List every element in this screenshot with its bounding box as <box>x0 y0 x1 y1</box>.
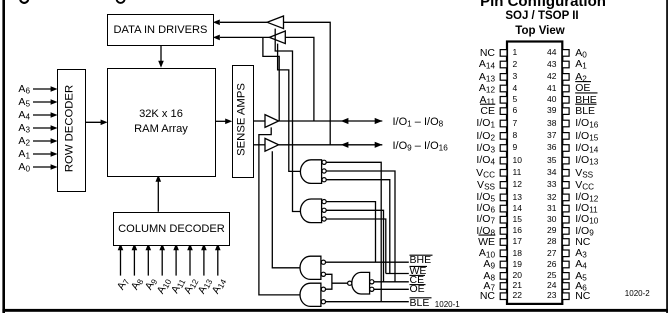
pin 14 label I/O6 <box>440 202 495 215</box>
gate G4 input bubble b <box>321 300 325 304</box>
pin 29 label I/O9 <box>575 225 594 238</box>
gate G2 input bubble c <box>322 217 326 221</box>
wire address A9 input <box>147 250 149 276</box>
pin 7 number <box>513 119 518 129</box>
pin 28 label NC <box>575 236 590 248</box>
overline for pin 6 CE label <box>480 103 495 105</box>
wire G2 input c to WE <box>326 219 386 274</box>
pin 4 number <box>513 84 518 94</box>
wire address A5 input <box>33 101 52 103</box>
pin 32 number <box>537 193 557 203</box>
pin 43 number <box>537 60 557 70</box>
arrowhead into data in drivers (lower) <box>213 35 220 41</box>
pin 39 label BLE <box>575 105 595 117</box>
frame left border <box>2 0 5 313</box>
wire G1 input b to CE <box>326 171 395 282</box>
pin 37 number <box>537 131 557 141</box>
pin 19 label A9 <box>440 258 495 271</box>
pin 16 number <box>513 226 522 236</box>
buffer input upper <box>267 16 283 29</box>
pin 30 number <box>537 215 557 225</box>
wire upper input buffer from I/O9-16 line <box>284 22 331 145</box>
pin 11 stub <box>500 170 507 177</box>
pin 25 stub <box>562 273 569 280</box>
pin 35 number <box>537 156 557 166</box>
pin 38 label I/O16 <box>575 117 598 130</box>
label A2 <box>9 135 30 148</box>
wire I/O line 2 <box>279 144 383 146</box>
pin 44 stub <box>562 50 569 57</box>
gate G5 body <box>352 272 370 294</box>
pin 41 label OE <box>575 82 590 94</box>
pin 20 label A8 <box>440 270 495 283</box>
label A9 <box>137 276 159 303</box>
pin 31 label I/O11 <box>575 202 598 215</box>
pin 39 stub <box>562 108 569 115</box>
buffer output 1 (I/O1-8) <box>265 115 279 128</box>
wire CE <box>374 281 409 283</box>
overline for BLE control label <box>410 297 432 299</box>
arrowhead A10 into column decoder <box>159 243 165 250</box>
wire input buffer upper to data in drivers <box>220 21 267 23</box>
pin 21 stub <box>500 283 507 290</box>
wire gate G2 output to upper input buffer enable <box>275 29 303 212</box>
pin 36 label I/O14 <box>575 142 598 155</box>
label I/O1 - I/O8 <box>393 116 444 129</box>
pin 30 label I/O10 <box>575 213 598 226</box>
arrowhead A1 into row decoder <box>51 151 58 157</box>
pin 12 number <box>513 180 522 190</box>
wire address A4 input <box>33 114 52 116</box>
gate G3 input bubble b <box>321 272 325 276</box>
wire address A11 input <box>175 250 177 276</box>
pin 11 label VCC <box>440 167 495 180</box>
pin 8 label I/O2 <box>440 130 495 143</box>
wire WE <box>386 273 409 275</box>
wire address A1 input <box>33 153 52 155</box>
pin 17 stub <box>500 239 507 246</box>
arrowhead I/O line 2 left <box>341 142 349 148</box>
pin 9 number <box>513 143 518 153</box>
pin 36 stub <box>562 145 569 152</box>
pin 7 label I/O1 <box>440 117 495 130</box>
pin 9 stub <box>500 145 507 152</box>
pin 16 stub <box>500 228 507 235</box>
overline for pin 40 BLE label <box>575 103 596 105</box>
pin 23 number <box>537 291 557 301</box>
pin 5 label A11 <box>440 94 495 107</box>
gate G1 input bubble b <box>322 169 326 173</box>
wire G1 input c to WE <box>326 180 390 274</box>
pin 15 label I/O7 <box>440 213 495 226</box>
wire tap from lower input line to I/O1-8 line <box>263 37 279 121</box>
arrowhead into RAM array left <box>101 120 108 126</box>
pin 41 stub <box>562 85 569 92</box>
pin 6 stub <box>500 108 507 115</box>
gate G3 input bubble a <box>321 260 325 264</box>
pin 41 number <box>537 84 557 94</box>
gate G2 body <box>300 199 321 223</box>
gate G4 body <box>300 283 321 306</box>
pin 40 stub <box>562 97 569 104</box>
wire OE <box>374 288 409 290</box>
pin 33 stub <box>562 182 569 189</box>
overline for pin 41 BHE label <box>575 92 597 94</box>
title Pin Configuration <box>478 0 608 10</box>
label ROW DECODER (rotated) <box>64 69 77 189</box>
pin 12 label VSS <box>440 179 495 192</box>
pin 42 label A2 <box>575 71 587 84</box>
pin 25 number <box>537 271 557 281</box>
overline for BHE control label <box>410 254 433 256</box>
pin 31 stub <box>562 205 569 212</box>
pin 27 label A3 <box>575 247 587 260</box>
pin 28 number <box>537 237 557 247</box>
pin 24 number <box>537 281 557 291</box>
overline for pin 42 OE label <box>575 81 591 83</box>
pin 17 label WE <box>440 236 495 248</box>
label A12 <box>178 276 200 303</box>
pin 43 stub <box>562 61 569 68</box>
pin 6 label CE <box>440 105 495 117</box>
arrowhead into RAM array bottom <box>156 175 162 182</box>
pin 43 label A1 <box>575 58 587 71</box>
wire I/O line 1 <box>279 120 383 122</box>
wire address A0 input <box>33 166 52 168</box>
pin 34 number <box>537 168 557 178</box>
subtitle SOJ / TSOP II <box>478 10 606 23</box>
pin 40 number <box>537 95 557 105</box>
pin 11 number <box>513 168 522 178</box>
pin 10 label I/O4 <box>440 154 495 167</box>
label A1 <box>9 148 30 161</box>
pin 24 stub <box>562 283 569 290</box>
arrowhead A3 into row decoder <box>51 125 58 131</box>
pin 35 stub <box>562 157 569 164</box>
arrowhead A8 into column decoder <box>132 243 138 250</box>
arrowhead into data in drivers (upper) <box>213 20 220 26</box>
wire address A2 input <box>33 140 52 142</box>
pin 40 label BHE <box>575 94 597 106</box>
pin 9 label I/O3 <box>440 142 495 155</box>
buffer input lower <box>269 31 285 44</box>
frame right border <box>666 0 668 313</box>
label A3 <box>9 122 30 135</box>
wire address A13 input <box>203 250 205 276</box>
arrowhead I/O line 2 right <box>375 142 383 148</box>
pin 31 number <box>537 204 557 214</box>
pin 16 label I/O8 <box>440 225 495 238</box>
pin 13 label I/O5 <box>440 191 495 204</box>
label 1020-2 <box>625 289 650 298</box>
pin 30 stub <box>562 216 569 223</box>
arrowhead into sense amps <box>225 119 232 125</box>
gate G3 body <box>300 256 321 279</box>
wire BHE <box>326 261 409 263</box>
package body outline <box>507 42 562 304</box>
wire input buffer lower to data in drivers <box>220 36 269 38</box>
pin 34 label VSS <box>575 167 593 180</box>
pin 32 label I/O12 <box>575 191 598 204</box>
pin 25 label A5 <box>575 270 587 283</box>
label A11 <box>164 276 186 303</box>
pin 18 number <box>513 249 522 259</box>
label WE <box>410 265 427 277</box>
overline for OE control label <box>410 284 426 286</box>
wire data in drivers to RAM array <box>160 44 162 62</box>
wire G2 input a to BHE <box>326 202 375 263</box>
pin 2 number <box>513 60 518 70</box>
label A14 <box>206 276 228 303</box>
pin 8 stub <box>500 133 507 140</box>
pin 10 number <box>513 156 522 166</box>
pin 19 number <box>513 260 522 270</box>
label I/O9 - I/O16 <box>393 140 448 153</box>
gate G4 input bubble a <box>321 287 325 291</box>
pin 28 stub <box>562 239 569 246</box>
wire gate G3 output to output buffer 2 enable <box>272 151 301 268</box>
pin 26 stub <box>562 261 569 268</box>
pin 26 label A4 <box>575 258 587 271</box>
pin 36 number <box>537 143 557 153</box>
pin 2 label A14 <box>440 58 495 71</box>
pin 33 label VCC <box>575 179 594 192</box>
overline for pin 17 WE label <box>479 234 496 236</box>
label A5 <box>9 96 30 109</box>
arrowhead A13 into column decoder <box>201 243 207 250</box>
pin 3 label A13 <box>440 71 495 84</box>
overline for WE control label <box>410 265 428 267</box>
pin 13 stub <box>500 194 507 201</box>
pin 33 number <box>537 180 557 190</box>
label SENSE AMPS (rotated) <box>236 65 249 175</box>
pin 3 stub <box>500 74 507 81</box>
pin 22 label NC <box>440 290 495 302</box>
arrowhead A6 into row decoder <box>51 86 58 92</box>
pin 15 number <box>513 215 522 225</box>
pin 19 stub <box>500 261 507 268</box>
pin 20 number <box>513 271 522 281</box>
pin 29 number <box>537 226 557 236</box>
frame bottom border <box>2 309 668 312</box>
wire address A10 input <box>161 250 163 276</box>
wire address A12 input <box>189 250 191 276</box>
pin 12 stub <box>500 182 507 189</box>
arrowhead A4 into row decoder <box>51 112 58 118</box>
gate G5 input bubble a <box>370 280 374 284</box>
wire column decoder to RAM array <box>157 181 159 212</box>
label A10 <box>151 276 173 303</box>
arrowhead A5 into row decoder <box>51 99 58 105</box>
label OE <box>410 283 425 295</box>
pin 35 label I/O13 <box>575 154 598 167</box>
overline for CE control label <box>410 274 426 276</box>
subtitle Top View <box>478 25 602 38</box>
buffer output 2 (I/O9-16) <box>265 138 279 151</box>
wire address A3 input <box>33 127 52 129</box>
pin 23 label NC <box>575 290 590 302</box>
gate G1 body <box>300 160 321 184</box>
pin 18 stub <box>500 250 507 257</box>
wire row decoder to RAM array <box>83 121 101 123</box>
wire G5 output to G3 and G4 inputs <box>326 274 348 289</box>
label BLE <box>410 297 430 309</box>
arrowhead I/O line 1 left <box>341 118 349 124</box>
pin 15 stub <box>500 216 507 223</box>
pin 7 stub <box>500 120 507 127</box>
wire lower input buffer from I/O1-8 line <box>285 37 314 121</box>
gate G2 input bubble b <box>322 208 326 212</box>
label A8 <box>123 276 145 303</box>
arrowhead A0 into row decoder <box>51 164 58 170</box>
pin 24 label A6 <box>575 280 587 293</box>
box RAM array <box>107 68 216 178</box>
wire G1 input a to BLE <box>326 162 381 301</box>
pin 18 label A10 <box>440 247 495 260</box>
pin 21 label A7 <box>440 280 495 293</box>
pin 14 number <box>513 204 522 214</box>
label BHE <box>410 254 432 266</box>
wire address A7 input <box>120 250 122 276</box>
arrowhead I/O line 1 right <box>375 118 383 124</box>
arrowhead into RAM array top <box>158 61 164 68</box>
gate G5 output bubble <box>348 281 352 285</box>
pin 22 number <box>513 291 522 301</box>
label A6 <box>9 83 30 96</box>
cropped caption descender g (left) <box>20 0 28 3</box>
wire sense amps to output buffer 2 <box>252 144 265 146</box>
pin 42 number <box>537 72 557 82</box>
box COLUMN DECODER <box>113 212 230 246</box>
box DATA IN DRIVERS <box>107 14 214 46</box>
pin 27 stub <box>562 250 569 257</box>
label 1020-1 <box>435 300 460 309</box>
label A0 <box>9 161 30 174</box>
label A7 <box>109 276 131 303</box>
pin 23 stub <box>562 293 569 300</box>
pin 1 label NC <box>440 47 495 59</box>
arrowhead A14 into column decoder <box>215 243 221 250</box>
arrowhead A2 into row decoder <box>51 138 58 144</box>
gate G2 input bubble a <box>322 200 326 204</box>
pin 21 number <box>513 281 522 291</box>
wire address A8 input <box>133 250 135 276</box>
wire gate G4 output to output buffer 1 enable <box>259 127 301 295</box>
pin 37 label I/O15 <box>575 130 598 143</box>
wire address A14 input <box>217 250 219 276</box>
pin 8 number <box>513 131 518 141</box>
pin 44 number <box>537 48 557 58</box>
box ROW DECODER <box>57 69 86 192</box>
wire RAM array to sense amps <box>213 120 226 122</box>
box SENSE AMPS <box>232 65 254 178</box>
pin 39 number <box>537 106 557 116</box>
wire G2 input b to CE <box>326 210 383 281</box>
pin 3 number <box>513 72 518 82</box>
label A13 <box>192 276 214 303</box>
arrowhead A7 into column decoder <box>118 243 124 250</box>
pin 14 stub <box>500 205 507 212</box>
pin 2 stub <box>500 61 507 68</box>
pin 4 label A12 <box>440 82 495 95</box>
arrowhead A11 into column decoder <box>173 243 179 250</box>
pin 5 stub <box>500 97 507 104</box>
pin 38 number <box>537 119 557 129</box>
pin 38 stub <box>562 120 569 127</box>
wire BLE <box>326 301 409 303</box>
pin 4 stub <box>500 85 507 92</box>
cropped caption descender g (right) <box>116 0 124 3</box>
arrowhead A12 into column decoder <box>187 243 193 250</box>
gate G1 input bubble c <box>322 178 326 182</box>
gate G1 input bubble a <box>322 160 326 164</box>
pin 17 number <box>513 237 522 247</box>
arrowhead A9 into column decoder <box>146 243 152 250</box>
pin 5 number <box>513 95 518 105</box>
pin 1 stub <box>500 50 507 57</box>
label CE <box>410 274 425 286</box>
pin 20 stub <box>500 273 507 280</box>
pin 26 number <box>537 260 557 270</box>
pin 10 stub <box>500 157 507 164</box>
pin 42 stub <box>562 74 569 81</box>
pin 34 stub <box>562 170 569 177</box>
wire gate G1 output to lower input buffer enable <box>278 44 301 172</box>
pin 29 stub <box>562 228 569 235</box>
pin 32 stub <box>562 194 569 201</box>
gate G5 input bubble b <box>370 287 374 291</box>
pin 44 label A0 <box>575 47 587 60</box>
pin 27 number <box>537 249 557 259</box>
label A4 <box>9 109 30 122</box>
pin 22 stub <box>500 293 507 300</box>
wire address A6 input <box>33 88 52 90</box>
pin 1 number <box>513 48 518 58</box>
wire sense amps to output buffer 1 <box>252 120 265 122</box>
pin 13 number <box>513 193 522 203</box>
pin 37 stub <box>562 133 569 140</box>
pin 6 number <box>513 106 518 116</box>
